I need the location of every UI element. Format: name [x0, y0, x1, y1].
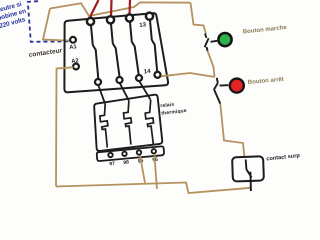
coil terminal A2: [73, 64, 79, 70]
start button cap (green): [218, 33, 231, 46]
wire: b2 to thermal relay: [120, 83, 129, 100]
svg-text:14: 14: [144, 69, 152, 76]
svg-text:97: 97: [109, 161, 115, 168]
aux contact 13-14: [150, 20, 157, 71]
contactor KM1 box: [64, 13, 168, 92]
stop button cap (red): [230, 79, 244, 93]
note text: neutre si bobine en 220 volts: [0, 1, 27, 30]
strip terminal 98: [122, 152, 126, 156]
stop button S1 contact: [214, 78, 221, 104]
svg-text:A2: A2: [71, 58, 79, 65]
wire: b1 to thermal relay: [98, 85, 105, 103]
contact pole 3: [130, 22, 139, 74]
thermal element 2: [124, 101, 132, 145]
svg-text:A1: A1: [69, 44, 78, 51]
terminal 2/T1: [95, 79, 101, 85]
wire: tan stop button down to pressure contact: [220, 104, 244, 157]
terminal 13: [146, 13, 153, 20]
coil terminal A1: [70, 37, 76, 43]
wire: red phase L3: [128, 0, 131, 15]
terminal 4/T2: [117, 77, 123, 83]
strip terminal 96: [152, 149, 156, 153]
contact pole 1: [91, 26, 98, 79]
start button stem: [211, 41, 218, 42]
relay terminal strip: [97, 146, 164, 161]
wire: b3 to thermal relay: [139, 81, 150, 100]
terminal 6/T3: [136, 75, 142, 81]
thermal element 1: [100, 104, 108, 148]
wire: tan start to stop button: [208, 51, 215, 77]
wire: tan from 14 to stop button line: [161, 73, 215, 77]
thermal element 3: [145, 100, 153, 145]
terminal 5/L3: [126, 14, 133, 21]
pressure switch box: [232, 156, 264, 181]
wire: tan bottom bus: [56, 183, 251, 194]
pressure switch contact: [246, 159, 252, 191]
svg-text:98: 98: [123, 160, 129, 167]
svg-text:13: 13: [139, 22, 147, 29]
wire: red phase L2: [110, 0, 113, 17]
thermal relay F1 box: [94, 95, 162, 151]
wire: tan from 95 down: [140, 156, 145, 184]
contact pole 2: [111, 24, 120, 77]
wire: tan from A2 down left side: [56, 67, 73, 186]
wire: blue dashed neutral to A1: [28, 1, 70, 42]
terminal 14: [155, 72, 161, 78]
strip terminal 95: [137, 150, 141, 154]
wire: tan from 96 down: [154, 154, 157, 189]
wire: tan phase feed top-left corner: [43, 9, 70, 41]
wire: tan top horizontal bus dipping to terminal 1: [50, 2, 191, 16]
wire: tan right side down to start button: [191, 3, 207, 34]
terminal 3/L2: [107, 16, 114, 23]
strip terminal 97: [108, 153, 112, 157]
terminal 1/L1: [87, 18, 94, 25]
start button S2 contact: [205, 34, 209, 52]
wire: red phase L1: [91, 0, 99, 18]
stop button stem: [220, 84, 229, 86]
